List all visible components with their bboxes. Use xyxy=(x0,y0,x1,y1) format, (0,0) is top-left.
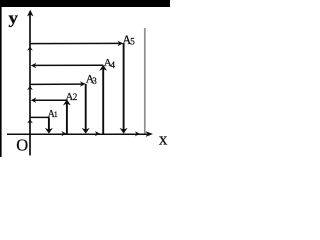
x-axis xyxy=(7,133,147,135)
right arrowhead on x-axis before A2 xyxy=(61,131,66,136)
svg-text:x: x xyxy=(159,130,168,149)
y-axis xyxy=(29,12,31,156)
svg-text:3: 3 xyxy=(92,76,97,86)
y-axis arrowhead xyxy=(27,10,34,17)
horizontal arrow y2 pointing left to y-axis (A2 level) xyxy=(34,99,67,101)
horizontal arrow y3 pointing right (A3 level) xyxy=(30,83,83,85)
horizontal arrow y4 pointing left to y-axis (A4 level) xyxy=(34,64,103,66)
vertical arrow A2 up xyxy=(66,102,68,134)
horizontal arrow y5 pointing right (A5 level) xyxy=(30,42,121,44)
vertical arrow A5 down xyxy=(123,44,125,131)
right arrowhead at A3 corner xyxy=(80,81,86,87)
left arrowhead at y-axis (A4) xyxy=(31,63,37,69)
up arrowhead at A2 corner xyxy=(63,99,71,105)
vertical arrow A1 down xyxy=(48,117,50,130)
stray gray vertical line xyxy=(144,28,146,134)
up arrowhead on y-axis below y3 xyxy=(27,86,33,90)
horizontal line y1 (A1 level) xyxy=(30,116,49,118)
down arrowhead at x-axis (A3) xyxy=(82,128,90,134)
up arrowhead on y-axis below y5 xyxy=(27,47,33,51)
svg-text:1: 1 xyxy=(54,110,58,119)
right arrowhead on x-axis after A5 xyxy=(135,131,140,136)
vertical arrow A4 up xyxy=(102,67,104,134)
down arrowhead at x-axis (A5) xyxy=(120,128,128,134)
left black border xyxy=(0,7,2,157)
svg-text:y: y xyxy=(9,8,19,27)
svg-text:4: 4 xyxy=(111,60,116,70)
svg-text:5: 5 xyxy=(130,37,135,47)
up arrowhead at A4 corner xyxy=(99,65,107,71)
top black bar xyxy=(0,0,170,7)
down arrowhead at x-axis (A1) xyxy=(45,128,53,134)
left arrowhead at y-axis (A2) xyxy=(31,97,37,103)
up arrowhead on y-axis below y1 xyxy=(27,119,33,123)
vertical arrow A3 down xyxy=(85,84,87,130)
svg-text:O: O xyxy=(16,136,28,155)
right arrowhead on x-axis before A4 xyxy=(95,131,100,136)
x-axis arrowhead xyxy=(146,131,153,137)
right arrowhead at A5 corner xyxy=(118,41,124,47)
svg-text:2: 2 xyxy=(73,92,78,102)
